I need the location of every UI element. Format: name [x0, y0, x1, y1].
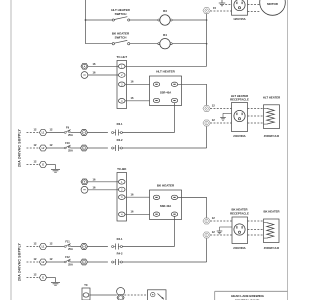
wire dashed supply L2 — [27, 143, 40, 148]
svg-text:12: 12 — [212, 216, 215, 220]
wire dashed to HLT receptacle top — [210, 108, 231, 110]
wire to BK switch — [86, 43, 113, 45]
svg-text:4500W ULD: 4500W ULD — [264, 246, 279, 250]
svg-text:25A: 25A — [68, 149, 73, 153]
pilot light bottom — [117, 288, 125, 300]
terminal L1 lower supply — [39, 242, 53, 250]
terminal strip TC bottom — [82, 283, 90, 300]
svg-text:R4-2: R4-2 — [117, 252, 123, 256]
svg-text:20A 240VAC SUPPLY: 20A 240VAC SUPPLY — [18, 242, 22, 281]
switch HLT HEATER SWITCH — [111, 8, 130, 21]
svg-text:MOTOR: MOTOR — [267, 2, 279, 6]
wire to contact R3-1 — [88, 132, 108, 134]
svg-text:HLT HEATER: HLT HEATER — [263, 96, 280, 100]
svg-text:12: 12 — [212, 104, 215, 108]
svg-text:240V/30A: 240V/30A — [233, 246, 245, 250]
node control feed junction — [85, 19, 87, 21]
wire TC-HLT 4 to SSR HLT — [125, 96, 149, 101]
breaker F10 25A — [64, 141, 73, 153]
svg-text:TC-BK: TC-BK — [117, 167, 127, 171]
wire SSR HLT output right — [178, 84, 207, 105]
wire dashed to BK receptacle bottom — [210, 234, 232, 236]
svg-text:25A: 25A — [68, 133, 73, 137]
motor PUMP MOTOR — [260, 0, 286, 15]
ground lower supply — [51, 282, 60, 285]
terminal strip TC-BK — [117, 167, 127, 221]
svg-text:HEAD LANE BREWING: HEAD LANE BREWING — [231, 294, 264, 298]
svg-text:G: G — [42, 164, 44, 167]
svg-text:BK HEATER: BK HEATER — [157, 183, 175, 187]
wire G to ground — [47, 165, 56, 170]
wire dashed to HLT receptacle bottom — [210, 122, 231, 124]
wire SSR HLT output down — [174, 103, 176, 133]
wire pin to TC-HLT 2 — [88, 71, 119, 75]
svg-text:20A 240VAC SUPPLY: 20A 240VAC SUPPLY — [18, 128, 22, 167]
contactor SSR HLT HEATER — [150, 69, 182, 105]
contactor SSR BK HEATER — [150, 183, 182, 219]
switch BK HEATER SWITCH — [112, 32, 130, 45]
terminal G lower supply — [39, 275, 46, 281]
terminal strip TC-HLT — [116, 55, 127, 108]
wire dashed supply ground upper — [27, 160, 40, 165]
terminal fuse BK L1 — [81, 244, 88, 250]
breaker F12 25A — [64, 255, 73, 267]
svg-text:15: 15 — [213, 6, 216, 10]
wire dashed supply 2 L2 — [27, 257, 40, 262]
svg-text:SWITCH: SWITCH — [115, 36, 127, 40]
svg-text:SSR-40A: SSR-40A — [160, 91, 171, 95]
wire switch to R4 — [130, 43, 158, 45]
wire R3-2 to HLT receptacle — [123, 126, 207, 148]
terminal 12 HLT receptacle bottom — [203, 118, 215, 126]
svg-text:R4-1: R4-1 — [117, 237, 123, 241]
svg-text:HLT HEATER: HLT HEATER — [156, 69, 175, 73]
svg-text:25A: 25A — [68, 263, 73, 267]
terminal 12 HLT receptacle top — [203, 104, 215, 112]
wire to HLT switch — [86, 19, 113, 21]
contact R4-1 — [112, 237, 123, 250]
wire L1 to breaker F11 — [47, 246, 65, 248]
svg-text:R3: R3 — [163, 9, 167, 13]
wire SSR BK output right — [178, 197, 207, 218]
ground HLT receptacle — [220, 113, 231, 120]
wire TC-BK 4 to SSR BK — [125, 210, 149, 215]
wire dashed HLT receptacle to heater 1 — [248, 108, 264, 110]
wire pin to TC-BK 1 — [88, 178, 119, 182]
receptacle HLT HEATER 240V/30A — [230, 94, 249, 138]
svg-text:G: G — [42, 277, 44, 280]
wire dashed BK receptacle to heater 3 — [248, 234, 264, 236]
wire R4 to control bus — [172, 43, 206, 45]
wire dashed to BK receptacle top — [210, 220, 232, 222]
relay coil R3 — [158, 9, 172, 25]
wire L2 to breaker F10 — [47, 147, 65, 149]
svg-text:240V/30A: 240V/30A — [233, 134, 245, 138]
terminal L2 upper supply — [39, 143, 53, 151]
heater element BK HEATER 4500W ULD — [263, 210, 279, 251]
contact R4-2 — [112, 252, 123, 266]
wire dashed BK receptacle to heater 2 — [248, 229, 264, 231]
terminal 12 BK receptacle bottom — [203, 230, 215, 238]
thermocouple pins HLT — [81, 63, 88, 78]
wire pin to TC-HLT 1 — [88, 62, 119, 66]
svg-text:F12: F12 — [65, 255, 70, 259]
svg-text:SWITCH: SWITCH — [115, 12, 127, 16]
wire dashed BK receptacle to heater 1 — [248, 220, 264, 222]
wire control bus vertical — [206, 13, 208, 66]
svg-text:F10: F10 — [65, 141, 70, 145]
wire TC-BK 3 to SSR BK — [125, 192, 149, 197]
wire to contact R4-1 — [88, 246, 108, 248]
wire R3 to control bus — [172, 19, 206, 21]
wire G to ground lower — [47, 278, 56, 283]
svg-text:BK HEATER: BK HEATER — [263, 210, 279, 214]
wire R3-1 to SSR HLT — [123, 132, 175, 134]
heater element HLT HEATER 4500W ULD — [263, 96, 280, 139]
wire dashed HLT receptacle to heater 2 — [248, 115, 264, 117]
terminal fuse HLT L1 — [81, 130, 88, 136]
terminal 12 BK receptacle top — [203, 216, 215, 224]
ground upper supply — [51, 169, 60, 172]
svg-text:F11: F11 — [65, 239, 70, 243]
wire dashed receptacle to motor lower — [248, 11, 260, 13]
wire to contact R3-2 — [88, 147, 108, 149]
relay coil R4 — [158, 33, 172, 49]
wire dashed HLT receptacle to heater 3 — [248, 122, 264, 124]
svg-text:R4: R4 — [163, 33, 167, 37]
page border right — [287, 0, 289, 300]
wire control feed vertical — [85, 0, 87, 44]
breaker F9 25A — [64, 125, 73, 137]
contact R3-2 — [112, 138, 123, 151]
ground at pump receptacle — [219, 0, 232, 6]
svg-text:12: 12 — [212, 118, 215, 122]
svg-text:R3-1: R3-1 — [117, 122, 123, 126]
wire to contact R4-2 — [88, 261, 108, 263]
wire R4-2 to BK receptacle — [123, 238, 207, 262]
svg-text:R3-2: R3-2 — [117, 138, 123, 142]
wire L2 to breaker F12 — [47, 261, 65, 263]
svg-text:25A: 25A — [68, 247, 73, 251]
title block — [215, 291, 288, 300]
terminal L2 lower supply — [39, 257, 53, 265]
wire dashed receptacle to motor upper — [248, 4, 260, 6]
wire TC-HLT 1 to control bus — [125, 65, 207, 67]
svg-text:RECEPTACLE: RECEPTACLE — [230, 211, 249, 215]
terminal fuse BK L2 — [81, 259, 88, 265]
wire SSR BK output down — [174, 216, 176, 246]
wire dashed supply 2 ground — [27, 273, 40, 278]
breaker F11 25A — [64, 239, 73, 251]
speed control bottom — [148, 290, 167, 300]
wire dashed terminal 15 to pump receptacle — [210, 10, 231, 12]
wire switch to R3 — [130, 19, 158, 21]
wire R4-1 to SSR BK — [123, 246, 175, 248]
svg-text:12: 12 — [212, 230, 215, 234]
thermocouple pins BK — [81, 179, 88, 193]
wire L1 to breaker F9 — [47, 132, 65, 134]
wire breaker to fuse terminal 3 — [70, 246, 80, 248]
svg-text:SSR-40A: SSR-40A — [160, 204, 171, 208]
wire dashed supply 2 L1 — [27, 242, 40, 247]
terminal G upper supply — [39, 162, 46, 168]
wire TC-HLT 3 to SSR HLT — [125, 80, 149, 85]
wire dashed pilot to speed control — [124, 294, 147, 296]
terminal fuse HLT L2 — [81, 145, 88, 151]
wire breaker to fuse terminal 4 — [70, 261, 80, 263]
terminal L1 upper supply — [39, 128, 53, 136]
ground BK receptacle — [217, 227, 232, 234]
receptacle PUMP 120V/15A — [232, 0, 248, 21]
svg-text:4500W ULD: 4500W ULD — [264, 134, 279, 138]
terminal 15 — [203, 6, 217, 14]
wire breaker to fuse terminal 2 — [70, 147, 80, 149]
label 20A 240VAC SUPPLY upper — [18, 128, 22, 167]
wire pin to TC-BK 2 — [88, 186, 119, 190]
receptacle BK HEATER 240V/30A — [230, 208, 249, 251]
svg-text:RECEPTACLE: RECEPTACLE — [230, 98, 249, 102]
svg-text:TC-HLT: TC-HLT — [116, 55, 127, 59]
svg-text:TC: TC — [84, 283, 88, 287]
contact R3-1 — [112, 122, 123, 135]
wire breaker to fuse terminal — [70, 132, 80, 134]
wire TC to pilot light — [90, 294, 117, 296]
wire dashed supply L1 — [27, 128, 40, 133]
svg-text:120V/15A: 120V/15A — [233, 17, 245, 21]
label 20A 240VAC SUPPLY lower — [18, 242, 22, 281]
page border left — [10, 0, 12, 300]
